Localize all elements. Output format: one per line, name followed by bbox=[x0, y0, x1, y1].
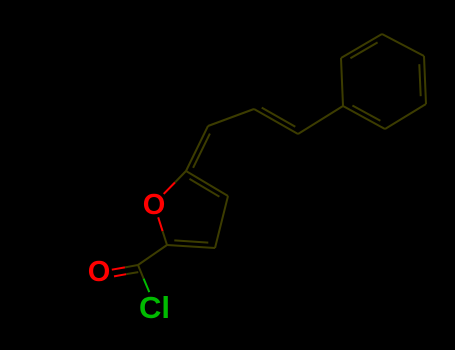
wire: chain bond Cb-Cc bbox=[254, 109, 298, 134]
wire: vinyl bond C5-Ca bbox=[186, 126, 208, 171]
wire: phenyl ring bond P1-P2 bbox=[341, 58, 343, 106]
wire: phenyl ring bond P4-P5 bbox=[424, 56, 426, 104]
wire: bond acyl carbon to Cl bbox=[138, 265, 149, 292]
wire: phenyl ring bond P5-P6 bbox=[385, 104, 426, 129]
wire: phenyl ring bond P6-P1 bbox=[343, 106, 385, 129]
wire: phenyl double bond P2=P3 inner line bbox=[350, 42, 377, 58]
wire: furan bond C2-C3 bbox=[167, 245, 215, 248]
wire: vinyl double bond C5=Ca inner line bbox=[193, 134, 210, 168]
wire: phenyl double bond P6=P1 inner line bbox=[352, 106, 380, 121]
wire: furan bond C4-C5 bbox=[186, 171, 228, 196]
wire: chain bond Ca-Cb bbox=[208, 109, 254, 126]
wire: furan bond C3-C4 bbox=[215, 196, 228, 248]
svg-text:Cl: Cl bbox=[139, 290, 170, 325]
wire: furan bond C5-O1 bbox=[164, 171, 186, 194]
wire: bond chain to phenyl ring bbox=[298, 106, 343, 134]
wire: bond C2 to acyl carbon bbox=[138, 245, 167, 265]
wire: furan double bond C2=C3 inner line bbox=[174, 240, 208, 242]
wire: carbonyl double bond C=O line 1 bbox=[112, 265, 138, 270]
wire: phenyl ring bond P2-P3 bbox=[341, 34, 382, 58]
wire: chain double bond Cb=Cc inner line bbox=[262, 108, 296, 127]
wire: furan double bond C4=C5 inner line bbox=[190, 179, 220, 197]
wire: furan bond O1-C2 bbox=[158, 217, 167, 245]
svg-text:O: O bbox=[88, 256, 111, 288]
wire: carbonyl double bond C=O line 2 bbox=[114, 272, 138, 276]
wire: phenyl double bond P4=P5 inner line bbox=[419, 64, 420, 96]
wire: phenyl ring bond P3-P4 bbox=[382, 34, 424, 56]
svg-text:O: O bbox=[143, 189, 166, 221]
